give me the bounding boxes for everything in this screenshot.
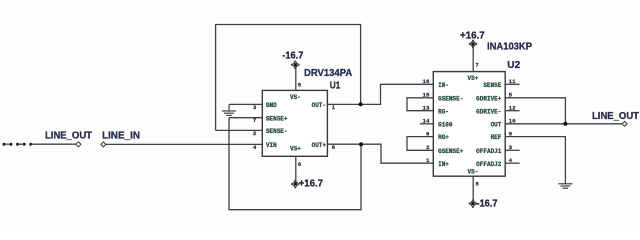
power symbol -16.7 below U2 xyxy=(469,199,478,208)
svg-text:GSENSE+: GSENSE+ xyxy=(438,148,464,155)
wire LINE_OUT left xyxy=(31,143,76,145)
svg-text:-16.7: -16.7 xyxy=(477,199,499,210)
junction dot OUT+ / SENSE+ loop xyxy=(359,142,363,146)
svg-text:10: 10 xyxy=(509,118,516,125)
wire SENSE+ feedback loop to OUT+ xyxy=(229,118,361,210)
svg-text:LINE_IN: LINE_IN xyxy=(102,130,140,141)
svg-text:2: 2 xyxy=(426,144,430,151)
svg-text:U2: U2 xyxy=(507,60,520,71)
wire U1 GND pin 3 xyxy=(229,103,262,105)
ground symbol at U2 REF xyxy=(558,184,572,188)
svg-text:REF: REF xyxy=(491,134,502,141)
wire U2 GDRIVE+ to OUT xyxy=(505,98,565,124)
svg-text:14: 14 xyxy=(423,118,430,125)
svg-text:OFFADJ2: OFFADJ2 xyxy=(476,161,502,168)
svg-text:GDRIVE-: GDRIVE- xyxy=(476,108,501,115)
svg-text:VS-: VS- xyxy=(290,94,301,101)
wire U2 SENSE stub pin 11 xyxy=(505,83,519,85)
svg-text:OFFADJ1: OFFADJ1 xyxy=(476,148,502,155)
svg-text:3: 3 xyxy=(509,144,513,151)
svg-text:7: 7 xyxy=(253,117,257,124)
wire U2 jumper pins 15-13 xyxy=(407,98,433,111)
wire stub dots far left xyxy=(3,143,33,146)
svg-text:G100: G100 xyxy=(438,121,453,128)
wire U2 OFFADJ2 stub pin 4 xyxy=(505,162,519,164)
svg-text:8: 8 xyxy=(475,180,479,187)
svg-text:16: 16 xyxy=(423,78,430,85)
svg-text:7: 7 xyxy=(475,62,479,69)
svg-text:OUT+: OUT+ xyxy=(312,142,327,149)
wire net OUT- to U2 IN- xyxy=(361,84,434,104)
svg-text:SENSE+: SENSE+ xyxy=(266,115,288,122)
svg-text:RG-: RG- xyxy=(438,108,449,115)
svg-text:2: 2 xyxy=(253,130,257,137)
op-amp U2 INA103KP body xyxy=(433,72,505,177)
port diamond LINE_OUT right xyxy=(622,121,627,126)
wire segment left chain 1 xyxy=(4,143,11,145)
svg-text:GSENSE-: GSENSE- xyxy=(438,95,463,102)
svg-text:INA103KP: INA103KP xyxy=(487,42,532,53)
svg-text:OUT: OUT xyxy=(491,121,502,128)
svg-text:LINE_OUT: LINE_OUT xyxy=(45,130,92,141)
svg-text:5: 5 xyxy=(298,82,302,89)
svg-text:1: 1 xyxy=(426,157,430,164)
svg-text:IN+: IN+ xyxy=(438,161,449,168)
svg-text:11: 11 xyxy=(509,78,516,85)
svg-text:6: 6 xyxy=(298,161,302,168)
wire SENSE- feedback loop to OUT- xyxy=(216,25,361,131)
svg-text:8: 8 xyxy=(332,144,336,151)
svg-text:IN-: IN- xyxy=(438,82,449,89)
wire U2 OUT to LINE_OUT port xyxy=(505,123,622,125)
wire U2 G100 stub pin 14 xyxy=(420,123,433,125)
wire U1 OUT- pin 1 xyxy=(327,103,360,105)
svg-text:RG+: RG+ xyxy=(438,134,449,141)
wire U1 VS- pin 5 xyxy=(295,65,297,91)
svg-text:+16.7: +16.7 xyxy=(299,179,324,190)
svg-text:3: 3 xyxy=(253,104,257,111)
svg-text:1: 1 xyxy=(332,104,336,111)
power symbol -16.7 above U1 xyxy=(291,60,300,69)
svg-text:9: 9 xyxy=(509,130,513,137)
wire net OUT+ to U2 IN+ xyxy=(361,144,433,163)
ground symbol near U1 GND xyxy=(222,104,236,115)
op-amp U1 DRV134PA body xyxy=(262,90,327,156)
svg-text:LINE_OUT: LINE_OUT xyxy=(592,111,639,122)
svg-text:4: 4 xyxy=(509,157,513,164)
svg-text:5: 5 xyxy=(509,92,513,99)
svg-text:VS+: VS+ xyxy=(290,145,301,152)
svg-text:VIN: VIN xyxy=(266,142,277,149)
svg-text:DRV134PA: DRV134PA xyxy=(304,68,352,79)
svg-text:+16.7: +16.7 xyxy=(460,30,485,41)
svg-text:12: 12 xyxy=(509,105,516,112)
svg-text:-16.7: -16.7 xyxy=(282,50,304,61)
wire U2 REF to ground xyxy=(505,137,565,184)
svg-text:15: 15 xyxy=(423,92,430,99)
junction dot OUT- / SENSE- loop xyxy=(359,102,363,106)
power symbol +16.7 above U2 xyxy=(469,40,478,49)
wire segment left chain 2 xyxy=(18,143,25,145)
wire U2 GDRIVE- stub pin 12 xyxy=(505,110,519,112)
wire U1 OUT+ pin 8 xyxy=(327,143,361,145)
svg-text:U1: U1 xyxy=(330,81,341,92)
wire U2 VS- pin 8 xyxy=(472,176,474,203)
svg-text:13: 13 xyxy=(423,105,430,112)
port diamond LINE_OUT left xyxy=(76,142,81,147)
svg-text:VS+: VS+ xyxy=(468,75,479,82)
svg-text:VS-: VS- xyxy=(468,169,479,176)
junction dot GDRIVE+ / OUT xyxy=(563,122,567,126)
wire LINE_IN to U1 VIN xyxy=(106,143,262,145)
svg-text:4: 4 xyxy=(253,144,257,151)
svg-text:OUT-: OUT- xyxy=(312,102,326,109)
wire U2 jumper pins 6-2 xyxy=(407,137,433,151)
wire U1 SENSE- pin 2 xyxy=(216,129,263,131)
svg-text:6: 6 xyxy=(426,130,430,137)
svg-text:SENSE: SENSE xyxy=(483,82,501,89)
svg-text:GND: GND xyxy=(266,102,277,109)
svg-text:SENSE-: SENSE- xyxy=(266,128,288,135)
svg-text:GDRIVE+: GDRIVE+ xyxy=(476,95,502,102)
wire U2 OFFADJ1 stub pin 3 xyxy=(505,149,519,151)
wire U1 SENSE+ pin 7 xyxy=(229,117,262,119)
port diamond LINE_IN xyxy=(101,142,106,147)
wire U1 VS+ pin 6 xyxy=(295,156,297,184)
wire U2 VS+ pin 7 xyxy=(472,44,474,72)
power symbol +16.7 below U1 xyxy=(291,180,300,189)
